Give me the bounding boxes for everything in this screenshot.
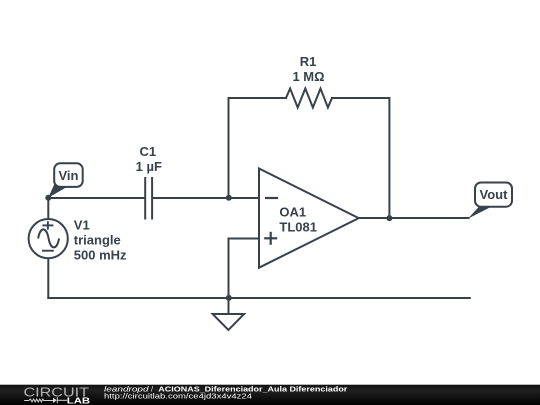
svg-text:OA1: OA1 [279, 204, 306, 219]
svg-text:http://circuitlab.com/ce4jd3x4: http://circuitlab.com/ce4jd3x4v4z24 [104, 392, 252, 401]
svg-text:R1: R1 [300, 54, 317, 69]
svg-text:500 mHz: 500 mHz [74, 247, 127, 262]
svg-text:1 MΩ: 1 MΩ [292, 69, 324, 84]
svg-text:1 µF: 1 µF [136, 159, 162, 174]
svg-text:V1: V1 [74, 218, 90, 233]
svg-text:C1: C1 [139, 144, 156, 159]
svg-text:Vout: Vout [480, 187, 509, 202]
svg-text:triangle: triangle [74, 233, 121, 248]
svg-text:LAB: LAB [67, 396, 90, 405]
svg-text:Vin: Vin [59, 168, 79, 183]
svg-text:TL081: TL081 [279, 219, 317, 234]
